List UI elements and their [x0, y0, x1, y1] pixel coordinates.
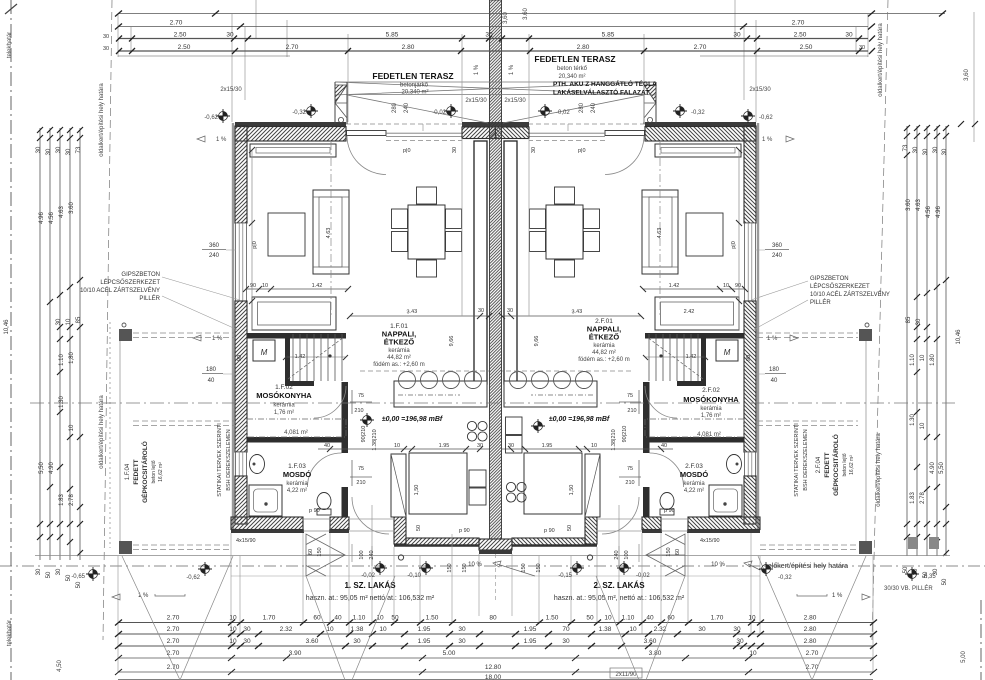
wall: living/mosokonyha divider	[247, 333, 346, 339]
furniture: window-side cabinet	[250, 144, 336, 157]
svg-text:-0,32: -0,32	[691, 110, 705, 116]
svg-text:4.63: 4.63	[326, 228, 332, 239]
svg-text:10: 10	[920, 354, 926, 361]
svg-text:2.80: 2.80	[804, 626, 817, 633]
svg-text:10/10 ACÉL ZÁRTSZELVÉNY: 10/10 ACÉL ZÁRTSZELVÉNY	[810, 291, 890, 298]
svg-text:±0,00 =196,98 mBf: ±0,00 =196,98 mBf	[382, 416, 443, 423]
svg-text:150: 150	[317, 547, 323, 556]
svg-text:p|0: p|0	[731, 241, 737, 249]
svg-text:LÉPCSŐSZERKEZET: LÉPCSŐSZERKEZET	[100, 279, 160, 286]
svg-text:4,22 m²: 4,22 m²	[287, 488, 307, 494]
svg-text:30: 30	[507, 308, 513, 314]
washing machine M	[253, 340, 275, 361]
beam edge extension line	[461, 138, 463, 316]
svg-text:2.50: 2.50	[794, 32, 807, 39]
svg-text:30: 30	[733, 32, 741, 39]
svg-text:1.70: 1.70	[263, 615, 276, 622]
top extension lines	[118, 0, 974, 142]
svg-text:1.F.02: 1.F.02	[275, 384, 293, 391]
svg-text:PILLÉR: PILLÉR	[810, 299, 831, 306]
svg-text:p|0: p|0	[252, 241, 258, 249]
svg-text:-0,15: -0,15	[558, 573, 572, 579]
svg-text:1,50: 1,50	[569, 485, 575, 496]
svg-text:kerámia: kerámia	[286, 481, 308, 487]
svg-text:1.50: 1.50	[546, 615, 559, 622]
svg-text:30: 30	[933, 146, 939, 153]
svg-text:4,50: 4,50	[57, 660, 63, 672]
svg-text:2.70: 2.70	[167, 626, 180, 633]
svg-text:30: 30	[103, 34, 109, 40]
svg-text:2x15/30: 2x15/30	[504, 98, 526, 104]
svg-text:2x15/30: 2x15/30	[465, 98, 487, 104]
building limit line left	[103, 0, 112, 640]
pergola edge projection dash line	[330, 142, 332, 316]
svg-text:2x15/30: 2x15/30	[749, 87, 771, 93]
svg-text:telekhatár: telekhatár	[7, 620, 13, 646]
svg-text:4.63: 4.63	[59, 206, 65, 218]
svg-text:p|0: p|0	[403, 148, 411, 154]
svg-text:2.50: 2.50	[178, 44, 191, 51]
svg-text:oldalkert/építési hely határa: oldalkert/építési hely határa	[99, 395, 105, 469]
unit geometry (left dwelling), mirrored later for right dwelling	[231, 122, 496, 566]
toilet	[317, 493, 331, 510]
room labels right unit	[549, 318, 740, 494]
svg-text:1.95: 1.95	[524, 626, 537, 633]
svg-text:1.80: 1.80	[930, 354, 936, 366]
svg-text:ÉTKEZŐ: ÉTKEZŐ	[384, 338, 415, 347]
svg-text:10 %: 10 %	[468, 562, 482, 568]
svg-text:30: 30	[56, 318, 62, 325]
svg-text:STATIKAI TERVEK SZERINTI: STATIKAI TERVEK SZERINTI	[217, 423, 223, 497]
svg-text:30: 30	[458, 626, 466, 633]
svg-text:2.80: 2.80	[402, 44, 415, 51]
level markers bottom row	[198, 562, 212, 576]
svg-text:30: 30	[46, 148, 52, 155]
svg-text:10: 10	[748, 615, 756, 622]
svg-text:10: 10	[229, 638, 237, 645]
svg-text:oldalkert/építési hely határa: oldalkert/építési hely határa	[99, 83, 105, 157]
svg-text:9,66: 9,66	[534, 336, 540, 347]
svg-text:ÉTKEZŐ: ÉTKEZŐ	[589, 333, 620, 342]
svg-text:240: 240	[614, 550, 620, 559]
svg-text:1.38|210: 1.38|210	[372, 429, 378, 450]
svg-text:10: 10	[326, 626, 334, 633]
party wall footing	[479, 539, 512, 550]
svg-text:4.96: 4.96	[936, 206, 942, 218]
furniture: dining table	[408, 205, 445, 259]
wall: left exterior wall middle	[235, 301, 247, 452]
svg-text:oldalkert/építési hely határa: oldalkert/építési hely határa	[878, 23, 884, 97]
wall: bottom exterior wall	[231, 517, 303, 530]
furniture: sideboard	[252, 297, 336, 330]
svg-text:240: 240	[209, 253, 220, 259]
svg-text:FEDETT: FEDETT	[824, 452, 831, 477]
svg-text:1.10: 1.10	[622, 615, 635, 622]
wall: mosokonyha/mosdo divider	[247, 437, 347, 443]
svg-text:M: M	[724, 348, 731, 357]
level markers mid (floor)	[360, 413, 374, 427]
terrace edge double line	[386, 133, 462, 136]
svg-text:1 %: 1 %	[762, 137, 773, 143]
svg-text:betonjárkő: betonjárkő	[400, 83, 429, 89]
carport left rotated labels	[125, 423, 232, 503]
svg-text:210: 210	[356, 480, 365, 486]
svg-text:40: 40	[646, 615, 654, 622]
GIPSZBETON leader text right	[810, 276, 890, 306]
svg-text:30: 30	[226, 32, 234, 39]
svg-text:1.38: 1.38	[599, 626, 612, 633]
svg-text:p 90: p 90	[664, 508, 675, 514]
svg-text:40: 40	[771, 378, 778, 384]
entry porch arc	[352, 497, 389, 534]
svg-text:1 %: 1 %	[832, 593, 843, 599]
svg-text:3.43: 3.43	[406, 309, 417, 316]
svg-text:1,76 m²: 1,76 m²	[274, 410, 294, 416]
svg-text:1.95: 1.95	[439, 443, 450, 449]
svg-text:30: 30	[736, 638, 744, 645]
svg-text:280: 280	[392, 102, 398, 113]
svg-text:4.90: 4.90	[930, 462, 936, 474]
steps right porch	[646, 534, 685, 576]
svg-text:18,00: 18,00	[485, 674, 502, 680]
svg-text:2x15/30: 2x15/30	[220, 87, 242, 93]
360/240 window marks	[206, 243, 783, 384]
svg-text:30: 30	[485, 32, 493, 39]
svg-text:10,46: 10,46	[4, 319, 10, 335]
svg-text:4.90: 4.90	[49, 462, 55, 474]
interior dim texts left unit	[236, 283, 484, 544]
svg-text:5,00: 5,00	[961, 651, 967, 663]
terrace top edge	[335, 81, 656, 83]
slope arrows bottom	[138, 562, 843, 599]
svg-text:240: 240	[369, 550, 375, 559]
terrace pergola structure top center	[335, 82, 656, 124]
svg-text:50: 50	[586, 615, 594, 622]
svg-text:1.83: 1.83	[910, 492, 916, 504]
svg-text:10,46: 10,46	[956, 329, 962, 345]
svg-text:90|210: 90|210	[361, 426, 367, 443]
svg-text:20,340 m²: 20,340 m²	[558, 74, 585, 80]
svg-text:1.50: 1.50	[426, 615, 439, 622]
svg-text:10: 10	[629, 626, 637, 633]
hob circles left unit	[467, 421, 487, 441]
svg-text:p 90: p 90	[309, 508, 320, 514]
svg-text:előkert/építési hely határa: előkert/építési hely határa	[768, 563, 848, 570]
section line A-A	[30, 402, 955, 404]
svg-text:1.95: 1.95	[524, 638, 537, 645]
left dimension column	[40, 128, 80, 560]
svg-text:2.50: 2.50	[174, 32, 187, 39]
svg-text:50: 50	[46, 571, 52, 578]
svg-text:150: 150	[521, 563, 527, 572]
svg-text:30: 30	[36, 146, 42, 153]
svg-text:-0,62: -0,62	[186, 575, 200, 581]
svg-text:FEDETLEN TERASZ: FEDETLEN TERASZ	[372, 71, 453, 81]
svg-text:73: 73	[76, 146, 82, 153]
step edge lines center	[352, 544, 639, 566]
svg-text:födém as.: +2,60 m: födém as.: +2,60 m	[578, 357, 630, 363]
svg-text:75: 75	[358, 466, 364, 472]
svg-text:haszn. at.: 95,05 m² nettó at: haszn. at.: 95,05 m² nettó at.: 106,532 …	[306, 595, 435, 602]
svg-text:telekhatár: telekhatár	[7, 32, 13, 58]
dashed utility zone	[247, 419, 346, 437]
svg-text:44,82 m²: 44,82 m²	[387, 355, 411, 361]
door: terrace door bottom p90	[303, 519, 330, 531]
svg-text:30: 30	[36, 568, 42, 575]
svg-text:1 %: 1 %	[216, 137, 227, 143]
tall cabinet	[391, 454, 406, 517]
svg-text:30: 30	[508, 443, 514, 449]
svg-text:150: 150	[536, 563, 542, 572]
svg-text:4x15/90: 4x15/90	[700, 538, 720, 544]
svg-text:280: 280	[579, 102, 585, 113]
svg-text:85: 85	[76, 316, 82, 323]
svg-text:-0,32: -0,32	[292, 110, 306, 116]
svg-text:kerámia: kerámia	[593, 343, 615, 349]
svg-text:kerámia: kerámia	[388, 348, 410, 354]
svg-text:50: 50	[391, 615, 399, 622]
svg-text:10: 10	[394, 443, 400, 449]
svg-text:10 %: 10 %	[711, 562, 725, 568]
lintel dashed lines over terrace opening	[346, 124, 489, 141]
svg-text:3.60: 3.60	[306, 638, 319, 645]
svg-text:100: 100	[624, 550, 630, 559]
svg-text:1 %: 1 %	[212, 336, 223, 342]
svg-text:80: 80	[489, 615, 497, 622]
svg-text:haszn. at.: 95,05 m², nettó at: haszn. at.: 95,05 m², nettó at.: 106,532…	[554, 595, 685, 602]
chairs	[417, 187, 437, 204]
bottom property dash-dot line	[0, 565, 985, 567]
svg-text:10: 10	[749, 650, 757, 657]
svg-text:LÉPCSŐSZERKEZET: LÉPCSŐSZERKEZET	[810, 283, 870, 290]
svg-text:30: 30	[56, 146, 62, 153]
svg-text:2.F.03: 2.F.03	[685, 463, 703, 470]
svg-text:90: 90	[237, 355, 243, 361]
carport projection V lines	[122, 556, 866, 680]
door swing arc top	[347, 136, 386, 175]
top dimension lines	[118, 14, 945, 57]
svg-text:70: 70	[562, 626, 570, 633]
svg-text:30: 30	[531, 147, 537, 153]
svg-text:1.42: 1.42	[312, 283, 323, 289]
svg-text:1.30: 1.30	[910, 414, 916, 426]
interior dim texts right unit	[507, 283, 741, 544]
svg-text:30: 30	[733, 626, 741, 633]
svg-text:BSH DEREKSZELEMEN: BSH DEREKSZELEMEN	[226, 429, 232, 490]
svg-text:3.60: 3.60	[523, 8, 529, 20]
svg-text:9,66: 9,66	[449, 336, 455, 347]
wall: top exterior wall left unit	[235, 122, 346, 127]
oven appliances left unit	[469, 470, 486, 487]
svg-text:3.60: 3.60	[906, 199, 912, 211]
svg-text:150: 150	[462, 563, 468, 572]
svg-text:16,62 m²: 16,62 m²	[158, 462, 164, 482]
telekhatar top tick	[5, 4, 17, 14]
svg-text:kerámia: kerámia	[683, 481, 705, 487]
svg-text:30: 30	[452, 147, 458, 153]
svg-text:GIPSZBETON: GIPSZBETON	[121, 272, 160, 278]
svg-text:1.38: 1.38	[351, 626, 364, 633]
svg-text:1,76 m²: 1,76 m²	[701, 413, 721, 419]
svg-text:1.95: 1.95	[542, 443, 553, 449]
svg-text:360: 360	[209, 243, 220, 249]
property line left (telekhatar)	[10, 0, 12, 680]
svg-text:p|0: p|0	[578, 148, 586, 154]
svg-text:90: 90	[746, 355, 752, 361]
svg-text:30: 30	[353, 638, 361, 645]
svg-text:210: 210	[625, 480, 634, 486]
svg-text:100: 100	[359, 550, 365, 559]
wall: corridor north	[285, 381, 314, 386]
svg-text:1.38|210: 1.38|210	[611, 429, 617, 450]
svg-text:LAKÁSELVÁLASZTÓ FALAZAT: LAKÁSELVÁLASZTÓ FALAZAT	[553, 88, 649, 97]
carport left steel posts	[119, 329, 132, 341]
svg-text:5,50: 5,50	[939, 462, 945, 474]
carport left	[110, 322, 235, 553]
svg-text:10/10 ACÉL ZÁRTSZELVÉNY: 10/10 ACÉL ZÁRTSZELVÉNY	[80, 287, 160, 294]
svg-text:4.56: 4.56	[49, 212, 55, 224]
svg-text:44,82 m²: 44,82 m²	[592, 350, 616, 356]
bottom dimension block lines	[118, 623, 873, 680]
svg-text:1.83: 1.83	[59, 494, 65, 506]
svg-text:3,60: 3,60	[503, 12, 509, 24]
wall: corridor east wall	[342, 382, 349, 442]
svg-text:BSH DEREKSZELEMEN: BSH DEREKSZELEMEN	[803, 429, 809, 490]
svg-text:2.70: 2.70	[792, 20, 805, 27]
svg-text:1. SZ. LAKÁS: 1. SZ. LAKÁS	[344, 581, 396, 590]
svg-text:30: 30	[243, 638, 251, 645]
svg-text:2.78: 2.78	[920, 492, 926, 504]
wall: SE corner porch wall	[394, 517, 406, 544]
wall-side dim strip	[251, 150, 253, 330]
svg-text:beton lejtő: beton lejtő	[842, 453, 848, 476]
svg-text:50: 50	[76, 581, 82, 588]
svg-text:5.00: 5.00	[443, 650, 456, 657]
svg-text:85: 85	[906, 316, 912, 323]
svg-text:40: 40	[661, 443, 667, 449]
svg-text:2.F.04: 2.F.04	[816, 456, 822, 473]
svg-text:2.70: 2.70	[170, 20, 183, 27]
svg-text:1.10: 1.10	[353, 615, 366, 622]
svg-text:10: 10	[66, 318, 72, 325]
window: bathroom	[236, 452, 247, 476]
svg-text:-0,02: -0,02	[636, 573, 650, 579]
svg-text:4.63: 4.63	[916, 199, 922, 211]
svg-text:4.96: 4.96	[39, 212, 45, 224]
svg-text:2.42: 2.42	[684, 309, 695, 315]
svg-text:1 %: 1 %	[767, 336, 778, 342]
post right 2x15/30	[644, 82, 656, 124]
svg-text:3.60: 3.60	[69, 202, 75, 214]
svg-text:GIPSZBETON: GIPSZBETON	[810, 276, 849, 282]
svg-text:1,80: 1,80	[69, 352, 75, 364]
svg-text:2.32: 2.32	[280, 626, 293, 633]
svg-text:2.80: 2.80	[577, 44, 590, 51]
building limit line right (slanted)	[872, 0, 888, 640]
svg-text:2.F.02: 2.F.02	[702, 387, 720, 394]
window: left living room	[236, 223, 247, 301]
kitchen counter	[409, 453, 467, 514]
svg-text:MOSDÓ: MOSDÓ	[680, 470, 709, 479]
svg-text:40: 40	[334, 615, 342, 622]
svg-text:1.10: 1.10	[59, 354, 65, 366]
svg-text:1 %: 1 %	[474, 64, 480, 75]
svg-text:-0,62: -0,62	[759, 115, 773, 121]
level markers top	[216, 109, 230, 123]
svg-text:1 %: 1 %	[509, 64, 515, 75]
svg-text:30: 30	[916, 318, 922, 325]
svg-text:1.42: 1.42	[669, 283, 680, 289]
svg-text:-0,02: -0,02	[361, 573, 375, 579]
oven appliances right unit	[506, 417, 523, 435]
svg-text:p 90: p 90	[544, 528, 555, 534]
svg-text:240: 240	[772, 253, 783, 259]
svg-text:4,081 m²: 4,081 m²	[697, 432, 721, 438]
svg-text:4,081 m²: 4,081 m²	[284, 430, 308, 436]
bottom dimension labels	[167, 615, 819, 680]
svg-text:±0,00 =196,98 mBf: ±0,00 =196,98 mBf	[549, 416, 610, 423]
party wall leaf (brick)	[474, 141, 487, 384]
svg-text:oldalkert/építési hely határa: oldalkert/építési hely határa	[876, 433, 882, 507]
svg-text:1,50: 1,50	[414, 485, 420, 496]
door arc: bathroom door	[308, 453, 342, 487]
svg-text:10: 10	[262, 283, 268, 289]
svg-text:2.80: 2.80	[804, 615, 817, 622]
wall: exterior edge band	[232, 123, 234, 533]
svg-text:2x11/90: 2x11/90	[616, 672, 638, 678]
svg-text:73: 73	[903, 144, 909, 151]
svg-text:2.78: 2.78	[69, 494, 75, 506]
steps left porch	[306, 534, 345, 576]
svg-text:30: 30	[243, 626, 251, 633]
svg-text:150: 150	[666, 547, 672, 556]
svg-text:5.85: 5.85	[602, 32, 615, 39]
svg-text:5,50: 5,50	[39, 462, 45, 474]
svg-text:PTH. AKU Z HANGGÁTLÓ TÉGLA: PTH. AKU Z HANGGÁTLÓ TÉGLA	[553, 79, 657, 88]
svg-text:30: 30	[458, 638, 466, 645]
svg-text:50: 50	[942, 578, 948, 585]
svg-text:240: 240	[404, 102, 410, 113]
svg-text:1.10: 1.10	[910, 354, 916, 366]
svg-text:kerámia: kerámia	[700, 406, 722, 412]
svg-text:2.70: 2.70	[806, 650, 819, 657]
door leaf: terrace door top	[347, 131, 387, 136]
washbasin	[250, 455, 265, 474]
svg-text:90|210: 90|210	[622, 426, 628, 443]
svg-text:180: 180	[769, 367, 780, 373]
bottom dim ticks	[115, 620, 877, 676]
furniture: coffee table	[268, 213, 305, 256]
right dwelling: mirrored geometry	[496, 122, 761, 566]
svg-text:75: 75	[358, 393, 364, 399]
svg-text:1.30: 1.30	[59, 396, 65, 408]
svg-text:4.63: 4.63	[657, 228, 663, 239]
wall: left exterior wall upper	[235, 126, 247, 223]
svg-text:75: 75	[627, 466, 633, 472]
svg-text:12.80: 12.80	[485, 664, 502, 671]
svg-text:STATIKAI TERVEK SZERINTI: STATIKAI TERVEK SZERINTI	[794, 423, 800, 497]
svg-text:10: 10	[591, 443, 597, 449]
shower	[249, 485, 282, 516]
room labels left unit	[256, 323, 443, 494]
svg-text:födém as.: +2,60 m: födém as.: +2,60 m	[373, 362, 425, 368]
svg-text:1.42: 1.42	[686, 354, 697, 360]
svg-text:M: M	[261, 348, 268, 357]
svg-text:-0,02: -0,02	[432, 110, 446, 116]
svg-text:2.70: 2.70	[167, 615, 180, 622]
party wall core (insulated separating wall)	[490, 0, 502, 539]
svg-text:3.90: 3.90	[289, 650, 302, 657]
